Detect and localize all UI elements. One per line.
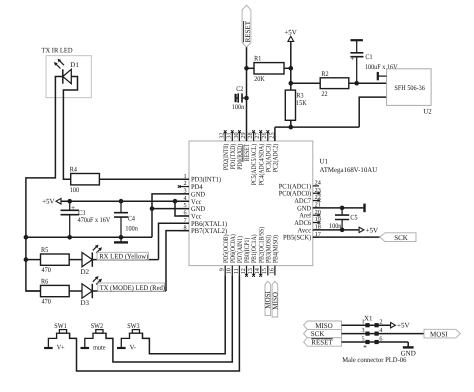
svg-text:+5V: +5V xyxy=(284,29,297,37)
svg-text:R6: R6 xyxy=(41,277,49,285)
svg-text:TX IR LED: TX IR LED xyxy=(42,47,73,55)
wire D1 cathode down-left rail xyxy=(26,77,63,292)
U1 pin 32 PD2(INT0) (top) xyxy=(224,132,226,141)
wire U1 pin8 to D3 xyxy=(166,231,189,291)
svg-text:ATMega168V-10AU: ATMega168V-10AU xyxy=(320,166,378,174)
U1 pin 8 PB7(XTAL2) (left) xyxy=(179,230,189,232)
svg-text:11: 11 xyxy=(233,268,240,274)
resistor R4 xyxy=(71,174,100,185)
U1 pin 14 PB2(OC1B/SS) (bottom) xyxy=(260,266,262,276)
svg-text:RESET: RESET xyxy=(244,20,252,42)
wire GND pin 3 down xyxy=(152,194,189,237)
wire +5V rail to Vcc pin 4 xyxy=(61,200,189,202)
wire D2 to PB6 xyxy=(92,259,158,261)
wire SCK pin 17 xyxy=(313,236,380,238)
U1 pin 22 ADC7 (right) xyxy=(313,200,319,202)
U1 pin 15 PB3(MOSI) (bottom) xyxy=(267,266,269,276)
C1 ground bar xyxy=(351,39,363,41)
U1 pin 11 PD7(AIN1) (bottom) xyxy=(238,266,240,276)
U1 pin 4 Vcc (left) xyxy=(179,200,189,202)
net flag SCK (X1) xyxy=(304,329,342,337)
net label box RX LED (Yellow) xyxy=(97,252,148,259)
svg-text:32: 32 xyxy=(219,132,226,138)
svg-text:100: 100 xyxy=(70,186,80,194)
switch SW1 xyxy=(56,332,70,334)
junction C4 bottom xyxy=(119,235,124,240)
svg-text:PB5(SCK): PB5(SCK) xyxy=(283,234,312,242)
switch SW2 xyxy=(92,332,106,334)
svg-text:470: 470 xyxy=(42,266,52,274)
D2 emission arrows xyxy=(93,247,96,250)
U2 pin 1 ground bar xyxy=(378,75,387,77)
U1 chip body ATMega168V-10AU xyxy=(189,141,313,266)
net flag RESET (top) xyxy=(242,5,251,47)
switch SW3 xyxy=(129,332,143,334)
U1 pin 1 PD3(INT1) (left) xyxy=(179,178,189,180)
svg-text:12: 12 xyxy=(240,268,247,274)
junction C3 top xyxy=(67,199,72,204)
svg-text:23: 23 xyxy=(315,187,321,194)
ground bar pin 21 xyxy=(363,204,365,213)
resistor R5 xyxy=(26,259,41,261)
wire +5V to R1/R2/R3 xyxy=(290,41,292,90)
resistor R1 xyxy=(247,67,255,69)
U1 pin 19 ADC6 (right) xyxy=(313,222,319,224)
U1 pin 16 PB4(MISO) (bottom) xyxy=(274,266,276,276)
junction RESET/C2 xyxy=(244,96,249,101)
svg-text:100n: 100n xyxy=(125,225,138,233)
SW3 left pin to ground bar xyxy=(121,333,129,347)
net flag SCK xyxy=(380,233,416,242)
wire X1 row 1 (MISO to +5V) xyxy=(342,324,391,326)
svg-text:R1: R1 xyxy=(254,55,262,63)
svg-text:V+: V+ xyxy=(57,344,65,352)
wire SW1 right pin to U1 xyxy=(70,275,240,371)
svg-text:mute: mute xyxy=(93,344,105,352)
wire D1 anode to R4 xyxy=(63,77,77,180)
svg-text:15K: 15K xyxy=(296,99,307,107)
wire SW2 right pin to U1 xyxy=(106,275,232,362)
junction C5 bottom xyxy=(340,228,345,233)
svg-text:100n: 100n xyxy=(329,222,342,230)
svg-text:V-: V- xyxy=(130,344,137,352)
net flag MOSI (right) xyxy=(424,329,460,338)
svg-text:MOSI: MOSI xyxy=(430,330,448,338)
power +5V (X1) xyxy=(391,323,396,328)
wire R4 to U1 pin 1 xyxy=(99,178,189,180)
svg-text:22: 22 xyxy=(315,194,321,201)
resistor R3 xyxy=(285,90,295,120)
svg-text:+: + xyxy=(71,204,75,212)
svg-text:27: 27 xyxy=(254,132,261,138)
capacitor C5 xyxy=(335,215,349,219)
svg-text:470: 470 xyxy=(42,297,52,305)
svg-text:100n: 100n xyxy=(232,103,245,111)
svg-text:+: + xyxy=(350,55,354,63)
junction C5 top xyxy=(340,206,345,211)
svg-text:14: 14 xyxy=(254,268,261,274)
svg-text:C4: C4 xyxy=(128,214,136,222)
D3 emission arrows xyxy=(93,278,96,281)
SW2 left pin to ground bar xyxy=(85,333,93,347)
svg-text:MISO: MISO xyxy=(271,292,279,310)
U1 pin 2 PD4 (left) xyxy=(179,186,189,188)
X1 pad pin 3 xyxy=(365,332,369,336)
U1 pin 31 PD1(TXD) (top) xyxy=(231,132,233,141)
wire RESET net vertical xyxy=(246,47,248,141)
wire SW3 right pin to U1 xyxy=(143,275,226,353)
U1 pin 12 PB0(ICP1) (bottom) xyxy=(246,266,248,276)
U1 pin 18 Avcc (right) xyxy=(313,229,319,231)
junction GND pin5 xyxy=(150,206,155,211)
wire ground rail xyxy=(26,236,152,238)
svg-text:+5V: +5V xyxy=(366,226,379,234)
svg-text:2: 2 xyxy=(184,180,187,187)
svg-text:D2: D2 xyxy=(81,268,90,276)
LED D3 xyxy=(82,284,92,298)
svg-text:30: 30 xyxy=(233,132,240,138)
resistor R6 xyxy=(26,290,41,292)
svg-text:U1: U1 xyxy=(320,158,329,166)
SW1 left pin to ground bar xyxy=(48,333,56,347)
svg-text:SW2: SW2 xyxy=(91,322,104,330)
U1 pin 5 GND (left) xyxy=(179,208,189,210)
U1 pin 20 Aref (right) xyxy=(313,214,319,216)
svg-text:3: 3 xyxy=(362,327,365,334)
svg-text:C5: C5 xyxy=(350,213,358,221)
svg-text:13: 13 xyxy=(247,268,254,274)
net flag MOSI (U1 pin 15) xyxy=(265,281,271,315)
ground symbol below C4 xyxy=(120,237,122,242)
wire X1 row 3 (RESET / GND) xyxy=(342,342,409,347)
svg-text:20: 20 xyxy=(315,209,321,216)
svg-text:1: 1 xyxy=(362,319,365,326)
U1 pin 27 PC4(ADC4/SDA) (top) xyxy=(260,132,262,141)
svg-text:MISO: MISO xyxy=(315,322,333,330)
svg-text:*: * xyxy=(363,343,367,352)
junction R1 right xyxy=(289,66,294,71)
net flag RESET (X1) xyxy=(304,338,342,346)
wire R3 bottom to SFH out / pin 25 xyxy=(290,120,292,127)
svg-text:4: 4 xyxy=(379,327,382,334)
net label box TX (MODE) LED (Red) xyxy=(98,283,165,291)
X1 pad pin 6 xyxy=(375,340,379,344)
junction C4 top xyxy=(119,199,124,204)
LED D2 xyxy=(82,252,92,266)
svg-text:PB4(MISO): PB4(MISO) xyxy=(272,235,280,263)
X1 pad pin 2 xyxy=(375,323,379,327)
U1 pin 17 PB5(SCK) (right) xyxy=(313,236,319,238)
svg-text:R3: R3 xyxy=(296,91,304,99)
U1 pin 30 PD0(RXD) (top) xyxy=(238,132,240,141)
svg-text:PB7(XTAL2): PB7(XTAL2) xyxy=(191,227,228,235)
junction R5 tap xyxy=(24,257,29,262)
net flag MISO (X1) xyxy=(304,321,342,329)
U1 pin 24 PC1(ADC1) (right) xyxy=(313,185,319,187)
svg-text:SCK: SCK xyxy=(311,330,325,338)
svg-text:D3: D3 xyxy=(81,299,90,307)
svg-text:20K: 20K xyxy=(254,75,265,83)
U1 pin 26 PC3(ADC3) (top) xyxy=(267,132,269,141)
wire U1 pin7 to D2 xyxy=(159,223,190,259)
svg-text:10: 10 xyxy=(226,268,233,274)
X1 pad pin 5 xyxy=(365,340,369,344)
svg-text:SFH 506-36: SFH 506-36 xyxy=(394,84,425,92)
wire GND pin 5 xyxy=(152,208,189,210)
svg-text:C2: C2 xyxy=(236,85,244,93)
LED D1 xyxy=(63,69,72,83)
D1 emission arrows xyxy=(56,64,60,68)
power +5V (Avcc) xyxy=(359,227,364,232)
wire GND pin 21 xyxy=(313,207,365,209)
svg-text:R4: R4 xyxy=(70,166,78,174)
U1 pin 29 RESET (top) xyxy=(246,132,248,141)
resistor R2 xyxy=(291,82,320,84)
U1 pin 7 PB6(XTAL1) (left) xyxy=(179,222,189,224)
junction C1 bottom xyxy=(354,81,359,86)
IR receiver U2 SFH 506-36 xyxy=(387,69,432,106)
svg-text:9: 9 xyxy=(219,268,226,271)
power +5V (top) xyxy=(288,36,294,41)
svg-text:22: 22 xyxy=(321,90,328,98)
svg-text:SW1: SW1 xyxy=(54,322,67,330)
svg-text:SW3: SW3 xyxy=(127,322,140,330)
svg-text:RESET: RESET xyxy=(311,339,333,347)
svg-text:U2: U2 xyxy=(423,107,432,115)
ground symbol X1 pin 6 xyxy=(403,346,414,348)
svg-text:28: 28 xyxy=(247,132,254,138)
svg-text:X1: X1 xyxy=(364,315,373,323)
svg-text:6: 6 xyxy=(379,335,382,342)
U1 pin 10 PD6(OC0A) (bottom) xyxy=(231,266,233,276)
wire Avcc pin 18 to +5V xyxy=(313,229,359,231)
svg-text:C1: C1 xyxy=(365,53,373,61)
net flag MISO (U1 pin 16) xyxy=(272,281,278,317)
wire X1 row 2 (SCK / MOSI) xyxy=(342,333,425,335)
TX IR LED section box xyxy=(46,56,91,98)
U1 pin 25 PC2(ADC2) (top) xyxy=(274,132,276,141)
U1 pin 6 Vcc (left) xyxy=(179,215,189,217)
svg-text:2: 2 xyxy=(379,319,382,326)
svg-text:470uF x 16V: 470uF x 16V xyxy=(78,216,111,224)
svg-text:5: 5 xyxy=(362,335,365,342)
svg-text:24: 24 xyxy=(315,180,321,187)
svg-text:15: 15 xyxy=(261,268,268,274)
junction RESET/R1 xyxy=(244,66,249,71)
X1 pad pin 4 xyxy=(375,332,379,336)
svg-text:PC2(ADC2): PC2(ADC2) xyxy=(272,143,280,172)
junction R2 left xyxy=(289,81,294,86)
svg-text:19: 19 xyxy=(315,216,321,223)
junction rail/left rail xyxy=(24,235,29,240)
wire Vcc pin 6 riser xyxy=(175,201,189,216)
svg-text:RX LED (Yellow): RX LED (Yellow) xyxy=(99,252,149,260)
capacitor C4 xyxy=(114,213,128,217)
capacitor C3 xyxy=(61,210,80,214)
svg-text:R5: R5 xyxy=(41,246,49,254)
capacitor C2 xyxy=(235,94,237,102)
svg-text:+5V: +5V xyxy=(42,198,55,206)
svg-text:SCK: SCK xyxy=(394,234,408,242)
U1 pin 21 GND (right) xyxy=(313,207,319,209)
svg-text:D1: D1 xyxy=(70,61,79,69)
svg-text:R2: R2 xyxy=(321,70,329,78)
X1 pad pin 1 xyxy=(365,323,369,327)
wire D3 to PB7 xyxy=(92,290,166,292)
U1 pin 3 GND (left) xyxy=(179,193,189,195)
U1 pin 13 PB1(OC1A) (bottom) xyxy=(253,266,255,276)
svg-text:16: 16 xyxy=(268,268,275,274)
svg-text:26: 26 xyxy=(261,132,268,138)
svg-text:TX (MODE) LED (Red): TX (MODE) LED (Red) xyxy=(100,284,166,292)
svg-text:Male connector PLD-06: Male connector PLD-06 xyxy=(342,356,407,364)
U1 pin 9 PD5(OC0B) (bottom) xyxy=(224,266,226,276)
U1 pin 28 PC5(ADC5/ACL) (top) xyxy=(253,132,255,141)
power +5V (left) xyxy=(56,198,61,204)
U1 pin 23 PC0(ADC0) (right) xyxy=(313,192,319,194)
junction C3 bottom xyxy=(67,235,72,240)
junction Vcc riser xyxy=(173,199,178,204)
svg-text:31: 31 xyxy=(226,132,233,138)
svg-text:+5V: +5V xyxy=(397,322,410,330)
